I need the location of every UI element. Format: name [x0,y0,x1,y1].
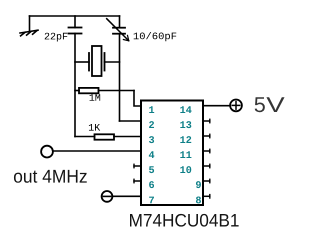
pin stub 10 [203,164,210,167]
pin 11 number [180,151,191,158]
pin 12 number [180,136,191,143]
wire node-R vertical [119,34,121,121]
pin stub 12 [203,134,210,137]
terminal plus [230,100,242,112]
wire R1 to pin1 [134,91,141,107]
wire node-R to pin2 [120,120,142,122]
crystal X1 [75,46,120,76]
label M74HCU04B1 [130,214,239,227]
pin stub 13 [203,119,210,122]
pin stub 8 [203,195,210,198]
label 10/60pF [134,32,177,41]
label out 4MHz [14,170,87,183]
label 1K [89,124,100,131]
pin stub 11 [203,149,210,152]
pin 8 number [196,196,201,203]
pin 13 number [180,121,191,128]
pin 1 number [149,106,154,113]
label 1M [90,94,101,101]
IC U1 body [141,101,203,206]
terminal out [41,146,53,158]
resistor R1 1M [75,88,134,93]
wire C2 drop [119,16,121,28]
ground [20,16,38,36]
resistor R2 1K [75,134,141,139]
pin 6 number [149,181,154,188]
terminal minus [102,191,113,202]
wire node-L vertical [74,34,76,137]
pin 3 number [149,136,154,143]
pin stub 9 [203,179,210,182]
pin 14 number [180,106,191,113]
label 22pF [45,33,68,42]
pin 4 number [149,151,154,158]
pin 7 number [149,197,154,204]
pin 2 number [149,121,154,128]
wire minus to pin7 [112,195,141,197]
wire ground rail [30,15,120,17]
pin 9 number [196,181,201,188]
pin stub 6 [134,179,141,182]
wire C1 drop [74,16,76,28]
pin 5 number [149,166,154,173]
pin stub 5 [134,164,141,167]
wire out to pin4 [54,150,142,152]
trimmer capacitor C2 [107,19,129,41]
capacitor C1 22pF [69,28,82,34]
pin 10 number [180,166,191,173]
wire pin14 to 5V [203,105,230,107]
label 5V [255,97,265,112]
